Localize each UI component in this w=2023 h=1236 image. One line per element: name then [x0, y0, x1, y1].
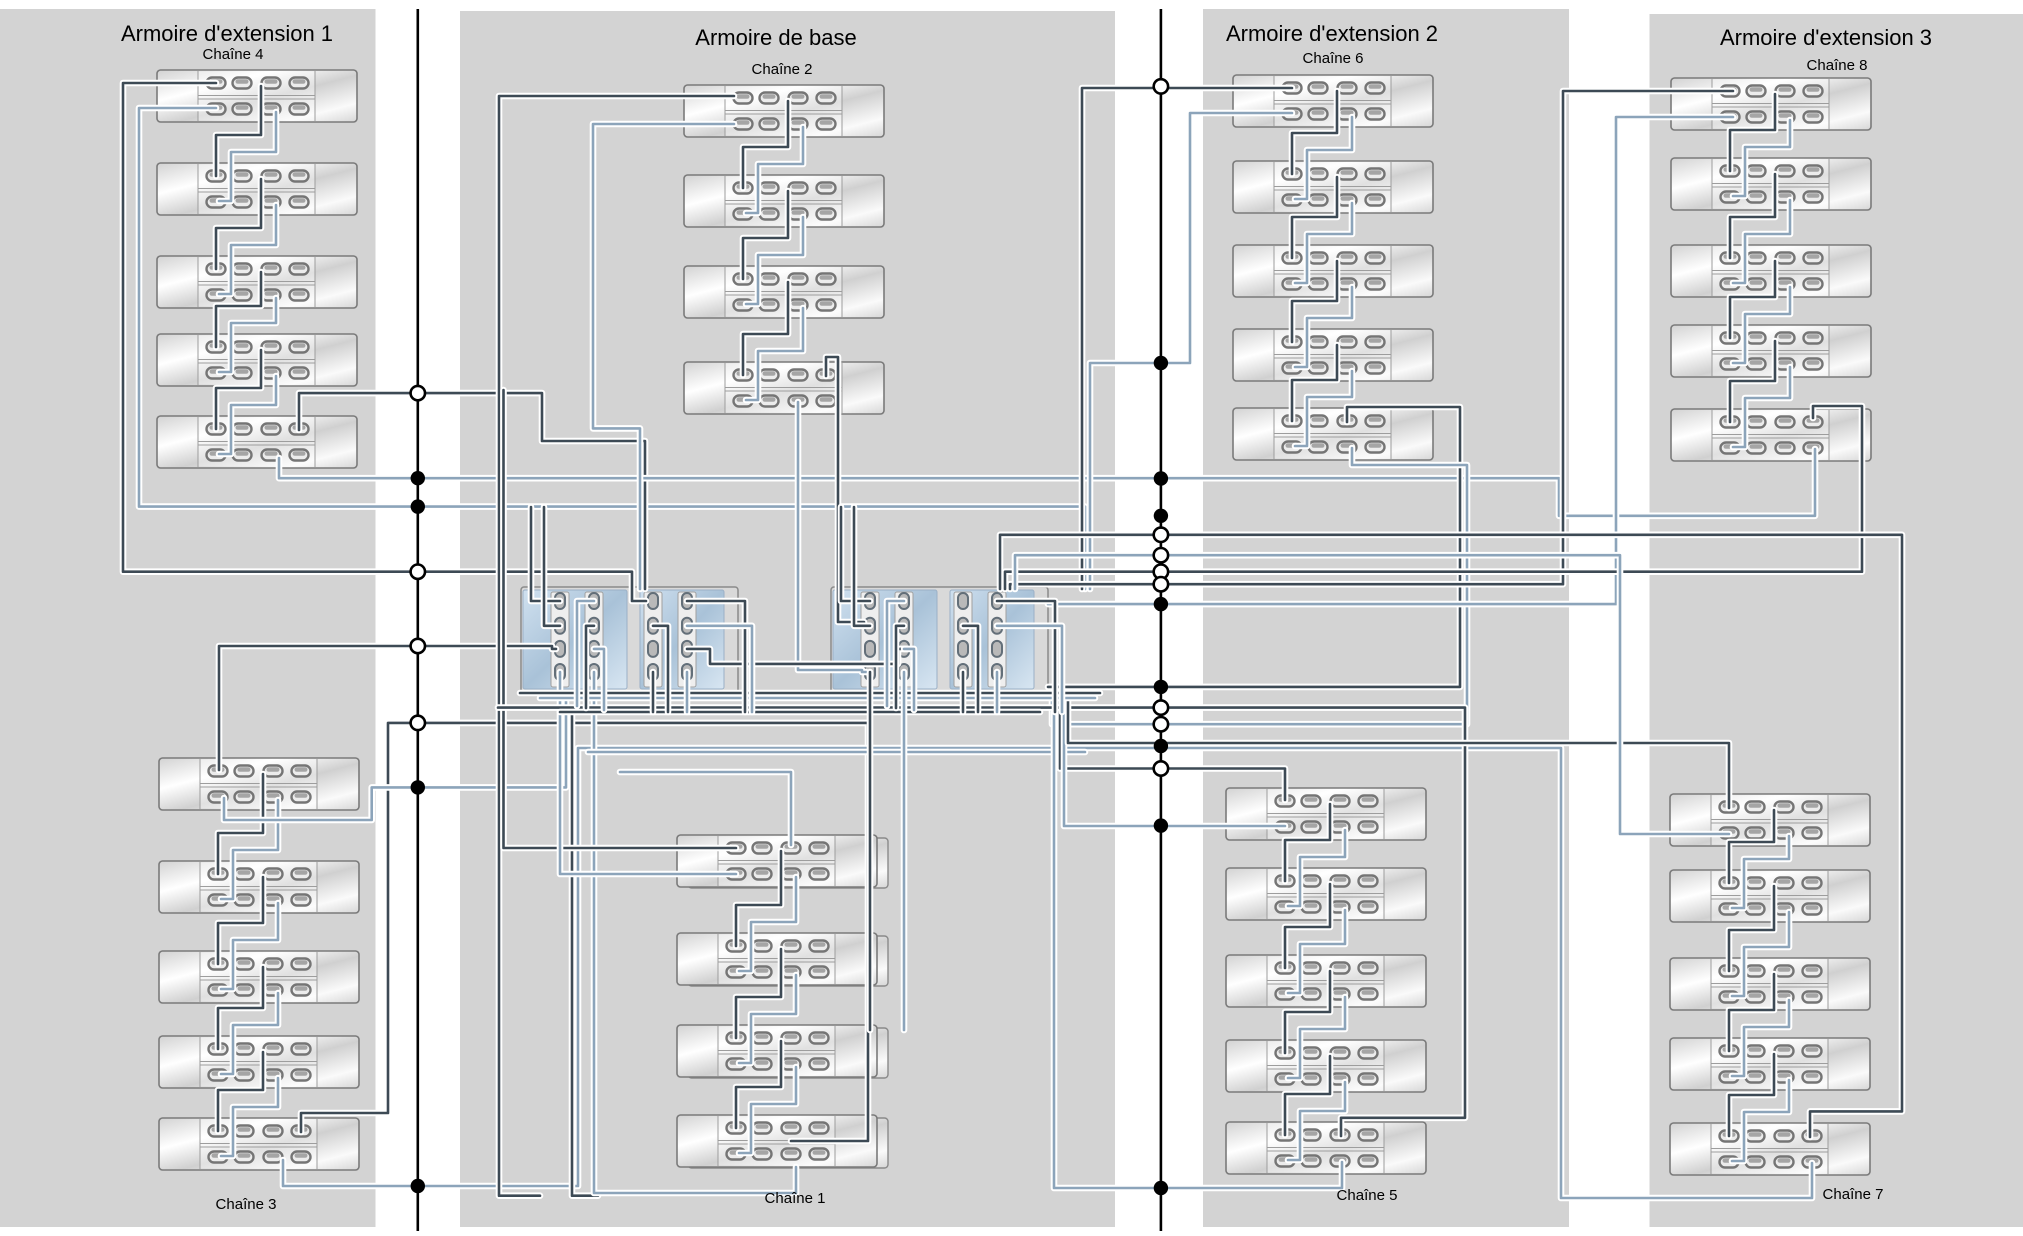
disk shelf chain3 shelf 3 — [159, 951, 359, 1003]
cable chain3-s5 / chain7-s5 blue trunk — [283, 748, 1812, 1198]
crossing circle line2 y534.8 — [1154, 528, 1168, 542]
junction dot line1 y1186 — [411, 1179, 425, 1193]
cable chain8-s5 dark — [1005, 406, 1862, 589]
rack panel Armoire de base — [460, 11, 1115, 1227]
cable chain1 shelf3-shelf4 dark — [736, 1041, 781, 1128]
cable chain1-s4 blue — [594, 672, 796, 1193]
cable bundle run 3 — [560, 709, 1040, 716]
controller U2 HBA panel B — [950, 590, 1034, 689]
crossing circle line1 y393.1 — [411, 386, 425, 400]
junction dot line2 y686.9 — [1154, 680, 1168, 694]
cable chain8 shelf2-shelf3 dark — [1730, 174, 1775, 258]
junction dot line2 y515.8 — [1154, 509, 1168, 523]
cable chain6 shelf2-shelf3 blue — [1295, 203, 1352, 283]
disk shelf chain6 shelf 4 — [1233, 329, 1433, 381]
cable chain3-s1 blue — [224, 700, 566, 820]
cable U2 portB1 drop — [887, 601, 904, 706]
cable chain5 shelf3-shelf4 dark — [1285, 971, 1330, 1053]
svg-text:Chaîne 5: Chaîne 5 — [1337, 1187, 1398, 1204]
cable chain7-s1 blue — [1015, 555, 1729, 834]
cable band run blue 772 to chain1-s1 — [620, 772, 791, 845]
cable U2 portB3 drop — [904, 649, 914, 710]
cable band run blue 752 — [588, 749, 1085, 756]
controller U2 port strip 1 — [861, 592, 879, 687]
cable chain4 shelf1-shelf2 dark — [216, 86, 261, 176]
crossing circle line2 y707.6 — [1154, 700, 1168, 714]
junction dot line1 y478.2 — [411, 471, 425, 485]
cable chain8 shelf1-shelf2 dark — [1730, 94, 1775, 171]
cable chain7 shelf4-shelf5 blue — [1732, 1080, 1789, 1161]
rack boundary line 2 — [1160, 9, 1163, 1231]
cable chain6 shelf3-shelf4 dark — [1292, 261, 1337, 342]
cable chain1-s1 blue — [560, 672, 736, 874]
disk shelf chain5 shelf 1 — [1226, 788, 1426, 840]
cable chain6 shelf2-shelf3 dark — [1292, 177, 1337, 258]
svg-text:Armoire d'extension 2: Armoire d'extension 2 — [1226, 21, 1438, 46]
cable chain6 shelf4-shelf5 dark — [1292, 345, 1337, 421]
controller U1 chassis — [521, 587, 738, 694]
cable chain7 shelf1-shelf2 blue — [1732, 836, 1789, 908]
cable chain7 shelf2-shelf3 dark — [1729, 886, 1774, 971]
svg-text:Chaîne 7: Chaîne 7 — [1823, 1186, 1884, 1203]
svg-text:Chaîne 3: Chaîne 3 — [216, 1196, 277, 1213]
controller U1 port strip 1 — [551, 592, 569, 687]
disk shelf chain2 shelf 4 — [684, 362, 884, 414]
cable chain4-s5 dark to controller U1 — [299, 393, 645, 589]
disk shelf chain7 shelf 4 — [1670, 1038, 1870, 1090]
disk shelf chain8 shelf 4 — [1671, 325, 1871, 377]
disk shelf chain2 shelf 2 — [684, 175, 884, 227]
controller U2 port strip 3 — [954, 592, 972, 687]
cable chain6 shelf1-shelf2 dark — [1292, 91, 1337, 174]
cable chain3 shelf2-shelf3 dark — [218, 877, 263, 964]
junction dot line1 y506.6 — [411, 499, 425, 513]
controller U2 port strip 4 — [988, 592, 1006, 687]
disk shelf chain5 shelf 3 — [1226, 955, 1426, 1007]
junction dot line2 y746 — [1154, 739, 1168, 753]
cable chain6-s1 blue — [1090, 113, 1292, 589]
cable U2 portB4 drop — [901, 672, 908, 1030]
disk shelf chain4 shelf 3 — [157, 256, 357, 308]
cable U2 portA4 drop — [867, 672, 874, 1030]
crossing circle line2 y571.7 — [1154, 565, 1168, 579]
crossing circle line1 y571.7 — [411, 565, 425, 579]
disk shelf chain7 shelf 5 — [1670, 1123, 1870, 1175]
disk shelf chain4 shelf 5 — [157, 416, 357, 468]
junction dot line2 y604.1 — [1154, 597, 1168, 611]
controller U1 HBA panel A — [523, 590, 627, 689]
cable chain6 shelf1-shelf2 blue — [1295, 117, 1352, 199]
cable chain8 shelf2-shelf3 blue — [1733, 200, 1790, 283]
svg-text:Armoire d'extension 1: Armoire d'extension 1 — [121, 21, 333, 46]
cable chain8 shelf3-shelf4 dark — [1730, 261, 1775, 338]
junction dot line2 y825.6 — [1154, 818, 1168, 832]
disk shelf chain6 shelf 2 — [1233, 161, 1433, 213]
cable chain5-s1 dark — [1060, 697, 1285, 800]
disk shelf chain6 shelf 3 — [1233, 245, 1433, 297]
cable U2 portC2 east — [963, 626, 978, 712]
cable chain2 shelf3-shelf4 blue — [746, 308, 803, 400]
cable chain2-s1 blue — [593, 124, 734, 589]
disk shelf chain7 shelf 1 — [1670, 794, 1870, 846]
rack boundary line 1 — [416, 9, 419, 1231]
disk shelf chain2 shelf 1 — [684, 85, 884, 137]
controller U1 port strip 2 — [585, 592, 603, 687]
cable chain3 shelf1-shelf2 dark — [218, 774, 263, 874]
controller U1 port strip 3 — [644, 592, 662, 687]
cable bundle run 1 — [520, 690, 1100, 697]
junction dot line2 y1188 — [1154, 1181, 1168, 1195]
cable U1-B3 to U2-A3 interlink — [687, 649, 908, 664]
controller U1 port strip 4 — [678, 592, 696, 687]
svg-text:Chaîne 8: Chaîne 8 — [1807, 57, 1868, 74]
crossing circle line2 y768.5 — [1154, 761, 1168, 775]
cable chain6-s5 dark — [1048, 407, 1460, 687]
junction dot line2 y363 — [1154, 356, 1168, 370]
cable chain7-s5 dark — [1000, 535, 1902, 1137]
cable U2 portD2 east — [997, 626, 1062, 712]
cable U1 portB2 drop — [586, 626, 594, 708]
cable U2 portB2 drop — [896, 626, 904, 708]
cable U2 portD1 east — [997, 601, 1055, 712]
disk shelf chain4 shelf 1 — [157, 70, 357, 122]
cable chain7 shelf3-shelf4 dark — [1729, 974, 1774, 1051]
cable chain2-s4 dark to controller U2 — [826, 357, 866, 626]
junction dot line2 y478.5 — [1154, 471, 1168, 485]
cable U2 portA1 riser — [841, 507, 870, 601]
cable chain1 shelf2-shelf3 dark — [736, 949, 781, 1038]
cable U1 portA1 riser — [531, 507, 560, 601]
disk shelf chain4 shelf 4 — [157, 334, 357, 386]
cable chain3 shelf3-shelf4 blue — [221, 993, 278, 1074]
cable chain4 shelf3-shelf4 dark — [216, 272, 261, 347]
svg-text:Chaîne 2: Chaîne 2 — [752, 61, 813, 78]
cable U2 portA2 riser — [854, 507, 870, 626]
disk shelf chain8 shelf 1 — [1671, 78, 1871, 130]
crossing circle line2 y584.2 — [1154, 577, 1168, 591]
disk shelf chain3 shelf 1 — [159, 758, 359, 810]
cable chain2 shelf2-shelf3 dark — [743, 191, 788, 279]
crossing circle line1 y722.9 — [411, 716, 425, 730]
cable chain4 shelf2-shelf3 dark — [216, 179, 261, 269]
disk shelf chain4 shelf 2 — [157, 163, 357, 215]
cable U1 portB1 drop — [577, 601, 594, 706]
cable chain8 shelf1-shelf2 blue — [1733, 120, 1790, 196]
cable chain3 shelf4-shelf5 dark — [218, 1052, 263, 1131]
disk shelf chain7 shelf 3 — [1670, 958, 1870, 1010]
junction dot line1 y787.4 — [411, 780, 425, 794]
disk shelf chain7 shelf 2 — [1670, 870, 1870, 922]
cable chain5 shelf3-shelf4 blue — [1288, 997, 1345, 1078]
cable chain1 shelf3-shelf4 blue — [739, 1067, 796, 1153]
rack panel Armoire d'extension 2 — [1203, 9, 1569, 1227]
cable chain7 shelf1-shelf2 dark — [1729, 810, 1774, 883]
cable chain5 shelf4-shelf5 dark — [1285, 1056, 1330, 1135]
cable U1 portC4 drop — [650, 672, 657, 712]
cable riser dark base rack — [572, 712, 598, 1196]
cable chain8-s1 blue — [1048, 117, 1733, 604]
disk shelf chain3 shelf 4 — [159, 1036, 359, 1088]
cable chain1 shelf1-shelf2 dark — [736, 851, 781, 946]
crossing circle line2 y724.2 — [1154, 717, 1168, 731]
cable chain2-s4 blue to controller U2 — [798, 402, 866, 672]
cable chain6-s5 blue — [1052, 448, 1467, 724]
cable chain1-s4 / chain3-s5 dark trunk — [301, 723, 868, 1141]
disk shelf chain1 shelf 3 — [677, 1025, 888, 1078]
disk shelf chain6 shelf 1 — [1233, 75, 1433, 127]
cable chain4 shelf4-shelf5 dark — [216, 350, 261, 429]
cable chain6 shelf3-shelf4 blue — [1295, 287, 1352, 367]
cable chain7 shelf2-shelf3 blue — [1732, 912, 1789, 996]
cable chain8 shelf3-shelf4 blue — [1733, 287, 1790, 363]
cable chain5-s5 blue — [1054, 712, 1342, 1188]
cable chain5 shelf2-shelf3 dark — [1285, 884, 1330, 968]
disk shelf chain5 shelf 4 — [1226, 1040, 1426, 1092]
cable chain3-s1 dark to controller U1 — [219, 646, 556, 770]
controller U2 port strip 2 — [895, 592, 913, 687]
crossing circle line1 y646 — [411, 639, 425, 653]
cable chain2 shelf1-shelf2 dark — [743, 101, 788, 188]
disk shelf chain8 shelf 5 — [1671, 409, 1871, 461]
disk shelf chain1 shelf 4 — [677, 1115, 888, 1168]
cable U1 portD2 east — [687, 626, 752, 712]
svg-text:Armoire d'extension 3: Armoire d'extension 3 — [1720, 25, 1932, 50]
cable chain8 shelf4-shelf5 dark — [1730, 341, 1775, 422]
cable chain4 shelf1-shelf2 blue — [219, 112, 276, 201]
crossing circle line2 y555.2 — [1154, 548, 1168, 562]
svg-text:Armoire de base: Armoire de base — [695, 25, 856, 50]
crossing circle line2 y86.4 — [1154, 79, 1168, 93]
cable U2 portC4 drop — [960, 672, 967, 712]
controller U1 HBA panel B — [640, 590, 724, 689]
cable chain2 shelf1-shelf2 blue — [746, 127, 803, 213]
cable chain6-s1 dark — [1082, 88, 1292, 589]
disk shelf chain8 shelf 2 — [1671, 158, 1871, 210]
cable chain7 shelf3-shelf4 blue — [1732, 1000, 1789, 1076]
cable U1 portA2 riser — [544, 507, 560, 626]
cable U1 portD1 east — [687, 601, 745, 712]
disk shelf chain3 shelf 5 — [159, 1118, 359, 1170]
disk shelf chain1 shelf 1 — [677, 835, 888, 888]
cable chain8 shelf4-shelf5 blue — [1733, 367, 1790, 447]
cable chain4-s1 dark to controller U1 — [123, 83, 646, 601]
svg-text:Chaîne 4: Chaîne 4 — [203, 46, 264, 63]
disk shelf chain5 shelf 5 — [1226, 1122, 1426, 1174]
cable chain5 shelf2-shelf3 blue — [1288, 910, 1345, 993]
cable chain8-s1 dark — [1010, 91, 1733, 589]
cable chain6 shelf4-shelf5 blue — [1295, 371, 1352, 446]
cable chain4-s5 blue trunk — [279, 449, 1815, 516]
cable bundle run 2 — [540, 695, 1095, 702]
controller U2 chassis — [831, 587, 1048, 694]
cable chain5 shelf4-shelf5 blue — [1288, 1082, 1345, 1160]
cable chain2 shelf2-shelf3 blue — [746, 217, 803, 304]
disk shelf chain8 shelf 3 — [1671, 245, 1871, 297]
disk shelf chain5 shelf 2 — [1226, 868, 1426, 920]
cable chain5-s5 dark — [498, 708, 1465, 1136]
rack panel Armoire d'extension 1 — [0, 9, 376, 1227]
disk shelf chain6 shelf 5 — [1233, 408, 1433, 460]
cable U2 portD4 drop — [994, 672, 1001, 712]
cable U1 portD4 drop — [684, 672, 691, 712]
disk shelf chain2 shelf 3 — [684, 266, 884, 318]
cable chain3 shelf1-shelf2 blue — [221, 800, 278, 899]
cable chain1 shelf1-shelf2 blue — [739, 877, 796, 971]
cable chain4 shelf3-shelf4 blue — [219, 298, 276, 372]
cable chain4 shelf2-shelf3 blue — [219, 205, 276, 294]
rack panel Armoire d'extension 3 — [1650, 14, 2023, 1227]
cable U1 portC2 east — [653, 626, 668, 712]
cable chain4 shelf4-shelf5 blue — [219, 376, 276, 454]
cable chain5 shelf1-shelf2 blue — [1288, 830, 1345, 906]
cable chain5-s1 blue — [1064, 697, 1285, 826]
cable chain7 shelf4-shelf5 dark — [1729, 1054, 1774, 1136]
svg-text:Chaîne 1: Chaîne 1 — [765, 1190, 826, 1207]
disk shelf chain3 shelf 2 — [159, 861, 359, 913]
cable chain3 shelf4-shelf5 blue — [221, 1078, 278, 1156]
cable chain4-s1 blue to controller U2 — [139, 108, 1085, 589]
controller U2 HBA panel A — [833, 590, 937, 689]
cable chain3 shelf2-shelf3 blue — [221, 903, 278, 989]
cable chain2-s1 dark — [499, 96, 734, 1196]
cable chain1-s1 dark — [504, 390, 737, 848]
svg-text:Chaîne 6: Chaîne 6 — [1303, 50, 1364, 67]
cable chain3 shelf3-shelf4 dark — [218, 967, 263, 1049]
cable U1 portB3 drop — [594, 649, 604, 710]
cable chain5 shelf1-shelf2 dark — [1285, 804, 1330, 881]
disk shelf chain1 shelf 2 — [677, 933, 888, 986]
cable chain1 shelf2-shelf3 blue — [739, 975, 796, 1063]
cable chain7-s1 dark — [1068, 697, 1729, 808]
cable chain2 shelf3-shelf4 dark — [743, 282, 788, 375]
